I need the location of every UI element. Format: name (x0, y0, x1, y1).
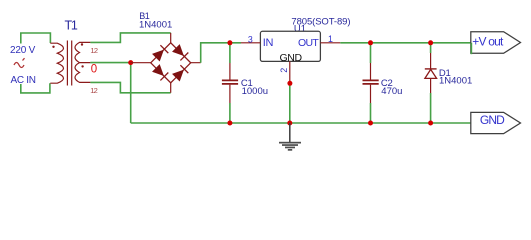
svg-text:12: 12 (90, 46, 97, 55)
flag GND (471, 112, 521, 133)
svg-text:GND: GND (480, 113, 505, 127)
wire regulator GND to rail (289, 83, 291, 123)
svg-text:AC IN: AC IN (11, 75, 36, 86)
ground wire (289, 123, 291, 142)
capacitor C2 plates (363, 80, 379, 84)
junction C1 bottom (227, 121, 232, 126)
svg-text:1000u: 1000u (242, 86, 268, 97)
bridge diode T-R (172, 44, 188, 60)
svg-text:1N4001: 1N4001 (439, 76, 472, 87)
bridge B1 diamond edges (151, 43, 191, 83)
svg-text:0: 0 (91, 63, 97, 75)
AC waveform mark (14, 58, 25, 67)
svg-text:12: 12 (90, 86, 97, 95)
wire secondary top to bridge (90, 33, 170, 43)
transformer primary polarity dot (52, 46, 54, 48)
junction center tap (128, 60, 133, 65)
flag +V out (471, 32, 521, 54)
wire regulator output rail (340, 42, 471, 44)
transformer secondary polarity dot top (81, 43, 83, 45)
junction D1 top (428, 40, 433, 45)
svg-text:T1: T1 (65, 18, 78, 32)
svg-text:3: 3 (248, 34, 253, 44)
diode D1 triangle (425, 69, 437, 78)
wire ground rail (131, 122, 471, 124)
bridge diode L-B (152, 64, 168, 80)
transformer secondary polarity dot bottom (81, 65, 83, 67)
wire +V out stub (470, 43, 472, 54)
diode D1 cathode bar (425, 68, 437, 70)
capacitor C2 pins (370, 63, 372, 103)
junction C2 top (368, 40, 373, 45)
diode D1 wire bottom (430, 93, 432, 123)
transformer secondary top winding (75, 42, 90, 62)
junction GND rail (287, 121, 292, 126)
wire center tap to junction (90, 62, 130, 64)
svg-text:GND: GND (280, 52, 303, 64)
transformer T1 primary winding (50, 43, 63, 83)
diode D1 wire top (430, 43, 432, 53)
svg-text:IN: IN (263, 37, 274, 49)
junction D1 bottom (428, 121, 433, 126)
svg-text:220 V: 220 V (10, 45, 36, 56)
capacitor C1 plates (222, 80, 238, 84)
wire ground vertical from junction (130, 63, 132, 123)
diode D1 pins (430, 53, 432, 93)
bridge B1 pins (131, 33, 201, 93)
svg-text:1N4001: 1N4001 (139, 19, 172, 30)
regulator pin IN wire (241, 42, 260, 44)
svg-text:+V out: +V out (472, 35, 504, 49)
svg-text:OUT: OUT (298, 37, 319, 49)
capacitor C1 wire top (229, 43, 231, 63)
ground symbol (279, 142, 301, 151)
svg-text:470u: 470u (381, 86, 402, 97)
transformer secondary bottom winding (75, 63, 90, 83)
capacitor C2 wire top (370, 43, 372, 63)
junction C2 bottom (368, 121, 373, 126)
junction C1 top (227, 40, 232, 45)
bridge diode L-T (152, 45, 168, 61)
capacitor C1 wire bottom (229, 103, 231, 123)
svg-text:1: 1 (328, 34, 333, 44)
regulator pin GND wire (289, 61, 291, 82)
transformer core (67, 41, 71, 86)
svg-text:2: 2 (279, 68, 289, 73)
regulator U1 box (260, 31, 320, 61)
junction GND pin (287, 81, 292, 86)
wire secondary bottom to bridge (90, 82, 170, 92)
wire AC source bottom (21, 83, 50, 93)
bridge diode B-R (172, 65, 188, 81)
regulator pin OUT wire (320, 42, 340, 44)
wire bridge output to regulator (201, 43, 241, 63)
capacitor C1 pins (229, 63, 231, 103)
capacitor C2 wire bottom (370, 103, 372, 123)
wire AC source top (21, 33, 51, 44)
